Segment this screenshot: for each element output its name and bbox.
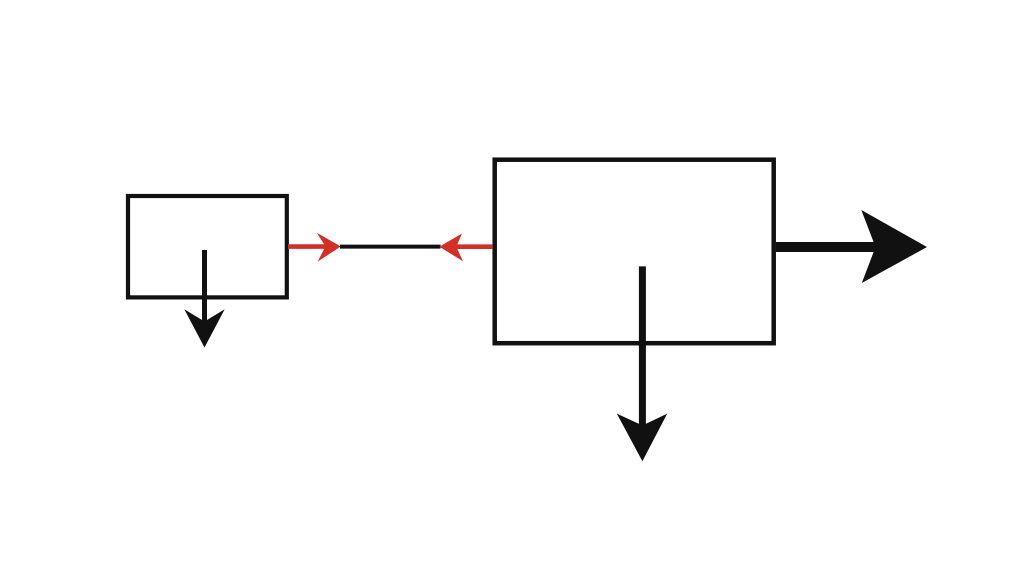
red action arrow shaft (from small box, pointing right) [288, 244, 326, 249]
red reaction arrow shaft (from large box, pointing left) [455, 244, 493, 249]
small box (left block) [128, 196, 287, 297]
weight arrowhead (small box) [184, 309, 224, 347]
weight arrowhead (large box) [617, 414, 667, 462]
applied force arrowhead [861, 210, 927, 283]
weight arrow shaft (large box) [639, 266, 646, 427]
applied force arrow shaft (thick, right of large box) [776, 242, 880, 252]
red reaction arrowhead (pointing left) [439, 234, 463, 262]
weight arrow shaft (small box) [202, 250, 207, 322]
red action arrowhead (pointing right) [317, 233, 341, 262]
large box (right block) [495, 160, 774, 344]
connecting rod (black line between red arrows) [340, 245, 441, 249]
